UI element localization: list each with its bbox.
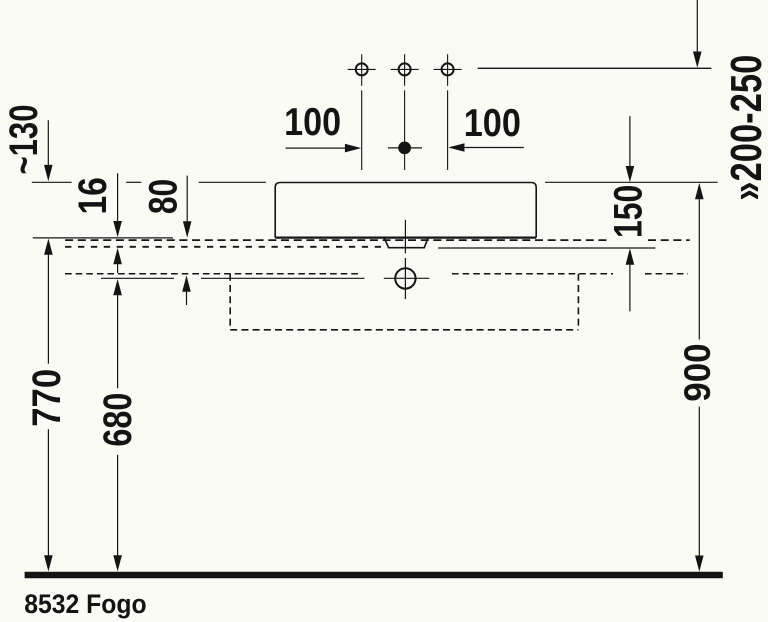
L1 solid countertop ref line: [33, 237, 173, 239]
dashed clearance box: [230, 274, 578, 330]
dim 80 upper arrow: [183, 176, 192, 238]
L2 thick dashed countertop top line: [65, 239, 690, 241]
dim 150 lower arrow: [626, 248, 635, 311]
svg-text:150: 150: [607, 185, 651, 238]
dim 100 left: [286, 144, 362, 153]
top dimension vertical line with down arrow (200-250 upper ref): [693, 0, 702, 68]
L4 dashed line (siphon clearance top): [65, 273, 688, 275]
dim ~130 arrow: [44, 120, 53, 181]
svg-text:100: 100: [464, 102, 521, 145]
drain circle: [395, 268, 415, 288]
dim 80 lower arrow: [182, 275, 191, 305]
drain centerline: [404, 220, 406, 299]
svg-text:680: 680: [96, 393, 140, 447]
L5 solid line through drain center: [101, 277, 429, 279]
dim 770 vertical line: [44, 239, 53, 572]
150 lower reference line (solid): [438, 247, 655, 249]
dim 680 vertical line: [113, 279, 122, 572]
svg-text:~130: ~130: [2, 105, 46, 175]
svg-text:»200-250: »200-250: [722, 55, 768, 201]
faucet hole circle 2 (middle): [391, 54, 419, 170]
dim 16 upper arrow: [113, 173, 122, 237]
svg-text:900: 900: [677, 343, 718, 401]
washbasin body outline: [275, 183, 536, 238]
svg-text:770: 770: [25, 369, 69, 427]
L3 dashed countertop bottom line: [65, 246, 384, 248]
dim 150 upper arrow: [626, 116, 635, 182]
tap deck reference horizontal line: [478, 67, 712, 69]
svg-text:16: 16: [71, 177, 115, 214]
dim 100 right: [448, 143, 524, 152]
floor line: [25, 572, 723, 579]
center fixing dot: [388, 142, 422, 155]
faucet hole circle 1 (left): [348, 54, 376, 170]
drain recess dip under basin: [384, 238, 428, 248]
dim 16 lower arrow: [113, 248, 122, 273]
basin top reference line segments at y=182.3: [32, 181, 718, 183]
svg-text:80: 80: [142, 179, 186, 214]
faucet hole circle 3 (right): [434, 54, 462, 170]
svg-text:8532 Fogo: 8532 Fogo: [24, 589, 146, 619]
dim 900 vertical line: [695, 183, 704, 572]
svg-text:100: 100: [284, 101, 341, 144]
